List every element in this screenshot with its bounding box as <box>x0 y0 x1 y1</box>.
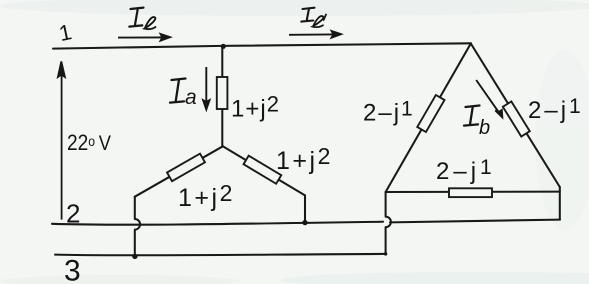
label current Ia <box>170 79 197 110</box>
svg-text:2: 2 <box>66 199 80 229</box>
voltage arrow 220V (upward from line 2 to line 1) <box>58 62 65 220</box>
wire line 2 right segment (to delta corner) <box>390 220 560 223</box>
resistor 2-j1 delta bottom <box>449 188 492 197</box>
label current Ib <box>464 106 490 140</box>
svg-text:b: b <box>479 117 490 139</box>
resistor 1+j2 wye left branch <box>167 154 205 182</box>
wire wye right corner to line 2 <box>304 195 306 222</box>
svg-text:3: 3 <box>64 255 81 284</box>
wire delta bottom edge <box>386 191 560 193</box>
label current Il <box>129 8 155 29</box>
svg-text:a: a <box>185 86 197 109</box>
wire wye right branch <box>223 146 305 195</box>
resistor 2-j1 delta left slant <box>417 95 444 132</box>
label current Il' <box>301 8 326 27</box>
wire line 2 left segment (phase 2 bus) <box>52 222 383 225</box>
junction node wye left corner on line 3 <box>132 254 137 259</box>
wire delta left slant <box>386 44 471 193</box>
wire wye left corner down to line 3 with hop over line 2 <box>135 197 140 257</box>
wire line 3 (phase 3 bus) <box>55 254 386 255</box>
wire dropper from line 1 to wye center <box>221 46 223 146</box>
junction node wye right corner on line 2 <box>302 220 307 225</box>
resistor 1+j2 wye right branch <box>244 156 282 184</box>
wire wye left branch <box>135 146 223 197</box>
current arrow Il' on line 1 right <box>289 31 341 38</box>
wire line 1 (phase 1 bus) <box>53 43 471 48</box>
current arrow Ia (downward) <box>203 67 209 110</box>
wire delta right slant <box>471 44 560 188</box>
wire delta left corner down to line 3 with hop over line 2 <box>386 192 391 254</box>
junction node delta left corner on line 3 <box>384 252 387 255</box>
resistor 2-j1 delta right slant <box>503 101 530 136</box>
wire delta right corner down to line 2 <box>559 187 561 220</box>
current arrow Ib (slanted, inside delta) <box>476 80 502 117</box>
current arrow Il on line 1 <box>118 34 170 41</box>
junction node on line 1 at dropper <box>221 44 226 49</box>
resistor Za 1+j2 (vertical, phase a) <box>217 77 228 109</box>
